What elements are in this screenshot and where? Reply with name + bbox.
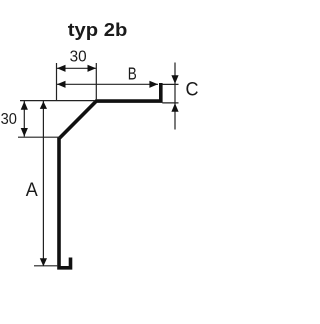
arrowhead C up	[171, 103, 178, 112]
dimension line B	[57, 83, 159, 85]
svg-text:B: B	[128, 63, 137, 83]
svg-text:C: C	[186, 80, 199, 101]
arrowhead A bottom	[40, 258, 47, 266]
extension line vertical left (for 30-top and B)	[56, 63, 58, 101]
svg-text:30: 30	[1, 111, 17, 128]
extension line at bottom	[34, 265, 57, 267]
svg-text:30: 30	[70, 48, 87, 65]
dimension line 30 top	[57, 67, 97, 69]
arrowhead A top	[40, 101, 47, 109]
dimension line C	[174, 63, 176, 130]
svg-text:A: A	[26, 180, 38, 201]
arrowhead 30-left bottom	[21, 128, 28, 137]
dimension line 30 left	[23, 101, 25, 137]
arrowhead C down	[171, 75, 178, 84]
arrowhead B left	[57, 81, 66, 88]
dimension line A	[42, 101, 44, 266]
svg-text:typ 2b: typ 2b	[68, 20, 128, 40]
arrowhead B right	[149, 81, 158, 88]
arrowhead 30-left top	[21, 101, 28, 110]
extension line C bottom	[162, 102, 178, 104]
extension line at elbow corner	[18, 136, 61, 138]
extension line top-left (top surface level)	[20, 100, 95, 102]
extension line C top	[162, 83, 178, 85]
extension line vertical right (for 30-top)	[95, 63, 97, 99]
arrowhead 30-top right	[88, 65, 97, 72]
arrowhead 30-top left	[57, 65, 66, 72]
profile outline (angle bracket cross-section)	[59, 83, 161, 268]
